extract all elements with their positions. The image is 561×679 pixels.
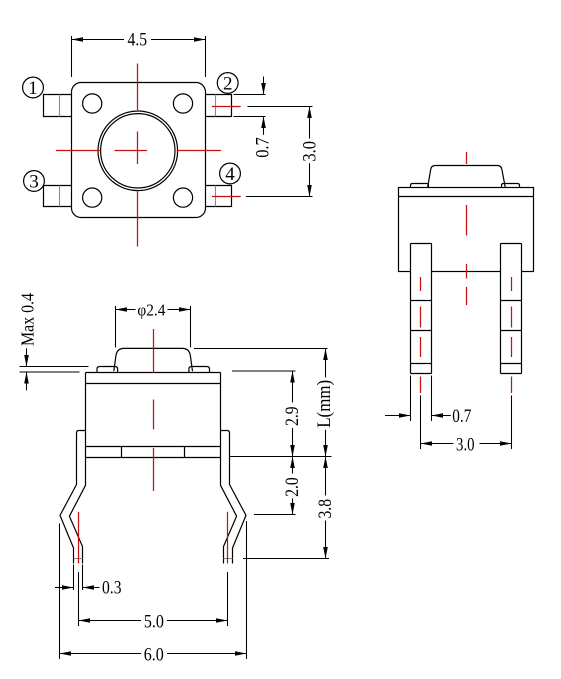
left foot seat mark	[74, 558, 83, 560]
side button	[428, 166, 506, 188]
side body band line	[399, 196, 534, 198]
dimension 3.0 extension lines	[246, 107, 313, 197]
svg-text:L(mm): L(mm)	[314, 380, 335, 428]
extension line button top for L	[194, 348, 328, 350]
circled number 4	[220, 163, 241, 185]
dimension 0.7 side extension lines	[411, 376, 432, 422]
svg-text:4: 4	[225, 164, 235, 185]
red centerline left pin	[420, 277, 422, 393]
red horizontal centerline top view	[56, 150, 221, 152]
terminal 4 box	[206, 186, 232, 207]
dimension 3.0 side extension lines	[421, 396, 512, 450]
side body outline	[399, 188, 534, 272]
corner hole top-right	[173, 94, 192, 113]
dimension 3.0 line with arrows	[309, 107, 311, 139]
svg-text:Max 0.4: Max 0.4	[18, 293, 38, 346]
button stem	[114, 348, 193, 371]
red centerline left foot	[78, 512, 80, 564]
circled number 1	[23, 77, 44, 99]
svg-text:2: 2	[223, 74, 233, 95]
terminal 1 box	[44, 95, 72, 117]
right bracket leg	[221, 431, 247, 564]
right foot seat mark	[224, 558, 233, 560]
svg-text:0.7: 0.7	[253, 137, 274, 158]
red vertical centerline top view	[137, 64, 139, 247]
dimension 3.0 side line with arrows	[421, 443, 454, 445]
circled number 2	[217, 73, 238, 95]
side flange left	[411, 184, 429, 188]
dimension 4.5 line with arrows	[72, 39, 125, 41]
svg-text:0.7: 0.7	[452, 406, 471, 427]
svg-text:4.5: 4.5	[128, 30, 148, 51]
svg-text:3: 3	[29, 172, 39, 193]
extension line body bottom	[230, 456, 332, 458]
svg-text:6.0: 6.0	[144, 644, 164, 665]
terminal 1 inner line	[59, 95, 61, 117]
red centerline terminal 4	[212, 196, 241, 198]
svg-text:2.9: 2.9	[282, 406, 303, 426]
dimension 0.7 side arrows	[385, 415, 411, 417]
terminal 3 box	[44, 186, 72, 207]
corner hole bottom-right	[173, 188, 192, 207]
corner hole bottom-left	[83, 188, 102, 207]
front body cap and outline	[86, 373, 221, 458]
base strip marks	[122, 447, 185, 458]
dimension 5.0 line with arrows	[79, 620, 142, 622]
dimension 6.0 extension lines	[60, 521, 247, 659]
dimension 2.9 line with arrows	[292, 371, 294, 403]
dimension 6.0 line with arrows	[60, 653, 142, 655]
extension line cap top for 2.9	[232, 370, 296, 372]
dimension 0.3 extension lines	[74, 565, 83, 591]
extension line knee level for 2.0	[254, 514, 296, 516]
svg-text:φ2.4: φ2.4	[137, 301, 165, 320]
svg-text:5.0: 5.0	[144, 611, 164, 632]
svg-text:0.3: 0.3	[102, 578, 122, 599]
terminal 3 inner line	[59, 186, 61, 207]
svg-text:3.0: 3.0	[300, 141, 321, 162]
red centerline terminal 2	[212, 106, 241, 108]
side flange right	[502, 184, 520, 188]
dimension 0.7 extension lines right of terminal 2	[234, 95, 266, 117]
button flange right	[189, 367, 210, 373]
right pin	[501, 244, 522, 374]
dimension 2.0 line with arrows	[292, 457, 294, 474]
center button inner circle	[101, 114, 175, 188]
dimension 5.0 extension lines	[79, 572, 228, 626]
center button outer circle	[98, 111, 178, 191]
dimension Max 0.4 lines	[20, 367, 89, 373]
terminal 2 box	[206, 95, 232, 117]
dimension L(mm) line with arrows	[325, 349, 327, 378]
circled number 3	[24, 171, 45, 193]
dimension phi2.4 extension lines	[116, 306, 191, 348]
terminal 2 inner line	[215, 95, 217, 117]
dimension Max 0.4 arrows	[26, 348, 28, 366]
dimension 0.7 arrows	[263, 77, 265, 95]
svg-text:3.0: 3.0	[456, 434, 475, 455]
button flange left	[97, 367, 118, 373]
svg-text:3.8: 3.8	[315, 499, 336, 519]
dimension 4.5 extension lines	[72, 36, 206, 77]
dimension phi2.4 line with arrows	[116, 309, 136, 311]
top view body outline	[72, 83, 206, 218]
red centerline side view	[466, 152, 468, 305]
corner hole top-left	[83, 94, 102, 113]
terminal 4 inner line	[215, 186, 217, 207]
left pin	[411, 244, 432, 374]
extension line feet level for 3.8	[243, 558, 329, 560]
red centerline right pin	[511, 277, 513, 393]
red centerline right foot	[227, 512, 229, 564]
red centerline front view	[153, 329, 155, 491]
svg-text:2.0: 2.0	[282, 477, 303, 497]
left bracket leg	[60, 431, 86, 564]
dimension 3.8 line with arrows	[325, 457, 327, 496]
svg-text:1: 1	[28, 78, 38, 99]
dimension 0.3 arrows	[55, 587, 74, 589]
